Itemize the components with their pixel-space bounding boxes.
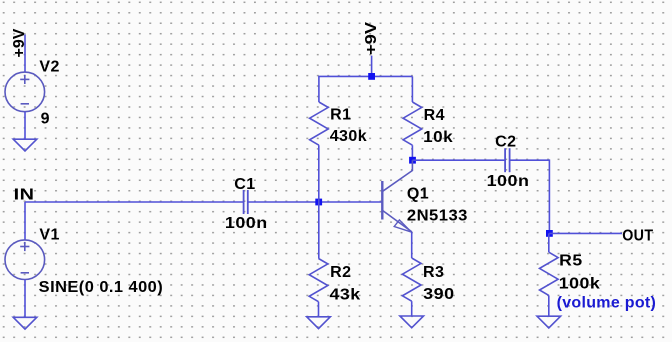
svg-text:OUT: OUT bbox=[622, 228, 653, 245]
svg-text:9: 9 bbox=[41, 111, 50, 128]
svg-text:V1: V1 bbox=[39, 227, 59, 244]
wire C2 to OUT corner bbox=[510, 160, 550, 233]
wire junction up to R1 bbox=[318, 145, 320, 202]
wire R4 bottom to collector node bbox=[411, 145, 413, 160]
svg-text:2N5133: 2N5133 bbox=[407, 208, 468, 225]
wire R1 top to rail bbox=[319, 76, 413, 102]
resistor R5 bbox=[540, 252, 559, 295]
svg-text:R1: R1 bbox=[330, 107, 351, 124]
capacitor C2 bbox=[505, 148, 510, 172]
svg-text:V2: V2 bbox=[39, 59, 59, 76]
svg-text:+9V: +9V bbox=[363, 22, 380, 55]
svg-text:10k: 10k bbox=[423, 129, 453, 146]
resistor R2 bbox=[309, 259, 328, 302]
voltage source V2 bbox=[5, 72, 45, 112]
svg-text:100n: 100n bbox=[225, 215, 268, 232]
svg-text:390: 390 bbox=[423, 286, 454, 303]
svg-text:430k: 430k bbox=[330, 128, 367, 145]
ground (R3) bbox=[400, 316, 424, 328]
wire C1 to base bbox=[248, 201, 382, 203]
resistor R4 bbox=[403, 102, 422, 145]
wire IN vertical bbox=[24, 202, 26, 240]
svg-text:C2: C2 bbox=[495, 134, 516, 151]
wire rail down to R4 bbox=[411, 76, 413, 102]
ground (R2) bbox=[307, 317, 331, 329]
svg-text:R5: R5 bbox=[559, 253, 583, 270]
wire junction down to R2 bbox=[318, 202, 320, 259]
wire V2 to ground bbox=[24, 112, 26, 140]
svg-text:100n: 100n bbox=[487, 173, 530, 190]
svg-text:Q1: Q1 bbox=[407, 186, 429, 203]
wire node down to R5 bbox=[548, 233, 550, 252]
wire V1 to ground bbox=[24, 280, 26, 318]
transistor Q1 bbox=[382, 160, 412, 232]
wire emitter down to R3 bbox=[411, 232, 413, 258]
svg-text:(volume pot): (volume pot) bbox=[557, 294, 657, 311]
net label +9V (top rail) bbox=[363, 22, 380, 55]
wire R2 to ground bbox=[318, 302, 320, 317]
ground (V2) bbox=[13, 139, 37, 151]
ground (R5) bbox=[537, 316, 561, 328]
ground (V1) bbox=[13, 317, 37, 329]
node junction (collector / R4 / C2) bbox=[409, 157, 416, 164]
net label +9V (at V2) bbox=[11, 28, 28, 57]
node junction (base / R1 / R2) bbox=[315, 199, 322, 206]
svg-text:IN: IN bbox=[14, 187, 35, 204]
wire +9V stub bbox=[371, 56, 373, 77]
resistor R1 bbox=[310, 102, 329, 145]
voltage source V1 bbox=[5, 240, 45, 280]
svg-text:R3: R3 bbox=[423, 264, 444, 281]
resistor R3 bbox=[402, 258, 421, 301]
wire R3 to ground bbox=[411, 301, 413, 316]
svg-text:R2: R2 bbox=[330, 264, 351, 281]
wire to OUT bbox=[549, 232, 622, 234]
wire IN horizontal to C1 bbox=[25, 201, 244, 203]
node junction (+9V rail) bbox=[368, 73, 375, 80]
capacitor C1 bbox=[244, 190, 248, 214]
wire collector node to C2 bbox=[412, 159, 505, 161]
svg-text:SINE(0 0.1 400): SINE(0 0.1 400) bbox=[39, 279, 164, 296]
svg-text:100k: 100k bbox=[559, 276, 601, 293]
wire V2 top stub bbox=[24, 35, 26, 73]
svg-text:C1: C1 bbox=[234, 176, 255, 193]
wire R5 to ground bbox=[548, 295, 550, 316]
svg-text:R4: R4 bbox=[424, 107, 445, 124]
svg-text:43k: 43k bbox=[330, 286, 361, 303]
node junction (OUT / R5) bbox=[546, 230, 553, 237]
